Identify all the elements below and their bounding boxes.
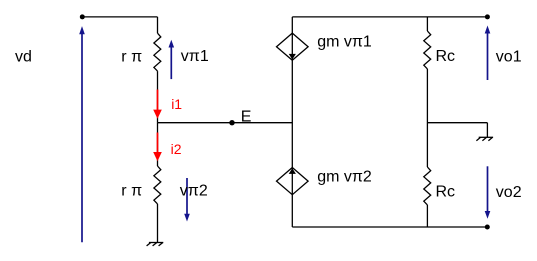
svg-text:gm vπ1: gm vπ1: [317, 33, 372, 50]
wire right box top: [292, 16, 487, 18]
voltage arrow v pi 2 (blue, downward): [184, 178, 190, 222]
wire ground branch horizontal: [427, 122, 487, 124]
resistor Rc2: [424, 167, 431, 205]
resistor R2 (r pi lower): [154, 166, 161, 204]
wire right box bottom: [292, 226, 487, 228]
resistor Rc1: [424, 31, 431, 69]
current arrow i1 (red, downward): [153, 90, 162, 119]
voltage arrow vo2 (blue, downward): [485, 166, 491, 219]
svg-text:E: E: [241, 109, 252, 126]
wire ground branch vertical: [486, 123, 488, 138]
wire Rc2 bottom lead: [426, 205, 428, 227]
dependent source G2 (gm v pi 2, diamond, arrow up): [277, 168, 309, 195]
ground (right): [476, 137, 493, 140]
wire R1 bottom lead down to node E: [157, 71, 159, 123]
wire Rc column middle: [426, 69, 428, 167]
node E junction dot: [229, 120, 234, 125]
svg-text:vd: vd: [15, 48, 32, 65]
resistor R1 (r pi upper): [154, 33, 161, 71]
dependent source G1 (gm v pi 1, diamond, arrow down): [277, 33, 309, 60]
wire r pi 1 top lead: [157, 17, 159, 33]
node vo1 (top-right junction dot): [485, 14, 490, 19]
wire G1 bottom to G2 top (through E level): [291, 60, 293, 167]
wire R2 bottom lead: [157, 204, 159, 243]
voltage arrow vo1 (blue, upward): [485, 26, 491, 81]
svg-text:Rc: Rc: [436, 184, 456, 201]
wire G1 top lead: [291, 17, 293, 33]
svg-text:Rc: Rc: [436, 48, 456, 65]
svg-text:i1: i1: [171, 96, 182, 112]
wire G2 bottom lead: [291, 195, 293, 227]
svg-text:gm vπ2: gm vπ2: [317, 169, 372, 186]
voltage arrow v pi 1 (blue, upward): [169, 40, 175, 79]
voltage arrow vd (blue, upward): [79, 26, 85, 242]
svg-text:r π: r π: [121, 182, 142, 199]
wire E down to r pi 2: [157, 123, 159, 166]
svg-text:vo2: vo2: [496, 184, 522, 201]
wire Rc1 top lead: [426, 17, 428, 31]
svg-text:i2: i2: [171, 141, 182, 157]
svg-text:vπ1: vπ1: [181, 48, 209, 65]
svg-text:vo1: vo1: [496, 49, 522, 66]
svg-text:r π: r π: [121, 49, 142, 66]
node vo2 (bottom-right junction dot): [485, 225, 490, 230]
ground (left): [147, 243, 164, 246]
wire top-left horizontal A to r pi 1: [82, 16, 157, 18]
wire node E horizontal: [158, 122, 293, 124]
node A (top-left junction dot): [80, 14, 85, 19]
svg-text:vπ2: vπ2: [180, 182, 208, 199]
current arrow i2 (red, downward): [153, 133, 162, 162]
